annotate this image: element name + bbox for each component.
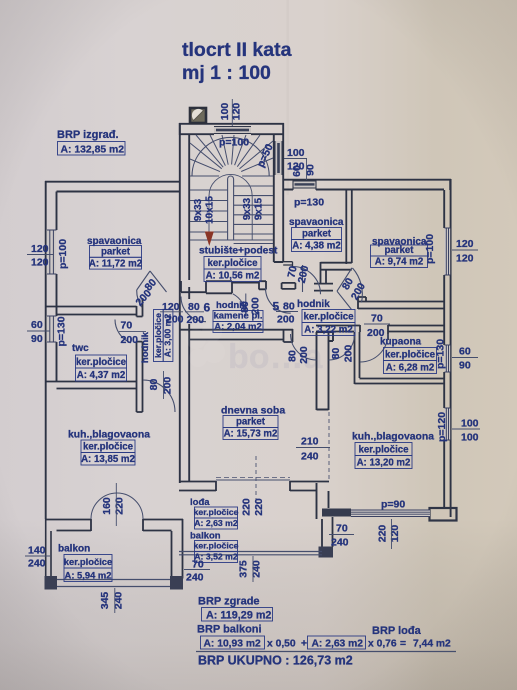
svg-text:balkon: balkon <box>58 544 90 555</box>
wall: balcony bottom (thin rail) <box>45 580 183 587</box>
svg-text:dnevna soba: dnevna soba <box>221 405 285 417</box>
svg-text:ker.pločice: ker.pločice <box>194 541 239 551</box>
door 6 arc (band to spav-left side) <box>181 297 206 322</box>
svg-text:A: 13,85 m2: A: 13,85 m2 <box>81 454 135 465</box>
vignette bottom <box>0 0 1 1</box>
svg-text:parket: parket <box>101 247 131 258</box>
svg-text:200: 200 <box>187 314 205 326</box>
svg-text:spavaonica: spavaonica <box>289 217 344 228</box>
window stair right p=50 <box>275 141 283 175</box>
svg-text:A: 2,63 m2: A: 2,63 m2 <box>312 638 364 649</box>
post: balcony bottom-left <box>45 576 58 590</box>
svg-text:A: 9,74 m2: A: 9,74 m2 <box>375 257 423 268</box>
svg-text:240: 240 <box>251 560 263 578</box>
wall: spavaonica-left / twc divider <box>45 307 137 315</box>
svg-text:90: 90 <box>31 333 43 345</box>
wall: twc bottom / kuh-left top <box>45 382 137 389</box>
post: balcony bottom-right <box>170 576 183 590</box>
svg-text:BRP izgrađ.: BRP izgrađ. <box>57 129 119 141</box>
dashed opening line kuh-right <box>328 412 330 481</box>
svg-text:A: 10,93 m2: A: 10,93 m2 <box>204 638 262 649</box>
stair treads right flight <box>234 186 273 234</box>
wall: kuh-right bottom with corners <box>322 509 351 517</box>
svg-text:A: 4,37 m2: A: 4,37 m2 <box>77 370 125 381</box>
svg-text:p=100: p=100 <box>219 137 249 149</box>
svg-text:60: 60 <box>31 319 43 331</box>
svg-text:ker.pločice: ker.pločice <box>207 258 258 269</box>
svg-text:p=90: p=90 <box>381 499 405 511</box>
svg-text:ker.pločice: ker.pločice <box>83 442 134 453</box>
svg-text:200: 200 <box>121 334 139 346</box>
svg-text:100: 100 <box>461 418 479 430</box>
svg-text:ker.pločice: ker.pločice <box>194 507 239 517</box>
svg-text:ker.pločice: ker.pločice <box>358 445 409 456</box>
svg-text:240: 240 <box>28 558 46 570</box>
svg-text:BRP lođa: BRP lođa <box>372 625 422 637</box>
wall: west outer <box>46 181 57 519</box>
svg-text:120: 120 <box>31 257 49 269</box>
svg-text:80: 80 <box>330 348 342 360</box>
svg-text:twc: twc <box>72 343 89 354</box>
wall: spav-right bottom <box>358 297 444 309</box>
svg-text:375: 375 <box>238 560 250 578</box>
svg-text:A: 119,29 m2: A: 119,29 m2 <box>206 609 271 621</box>
box A: 119,29 m2 <box>202 608 273 622</box>
svg-text:240: 240 <box>331 537 349 549</box>
box A: 132,85 m2 <box>58 142 126 156</box>
svg-text:120: 120 <box>162 301 180 313</box>
svg-text:160: 160 <box>101 497 113 515</box>
svg-text:9x15: 9x15 <box>254 197 265 220</box>
svg-text:220: 220 <box>241 498 253 516</box>
svg-text:70: 70 <box>192 559 204 571</box>
svg-text:tlocrt II kata: tlocrt II kata <box>182 39 292 61</box>
svg-text:p=130: p=130 <box>435 339 447 369</box>
svg-text:240: 240 <box>113 592 125 610</box>
svg-text:kuh.,blagovaona: kuh.,blagovaona <box>68 430 150 441</box>
dashed opening line loda <box>255 456 257 512</box>
stair walking line <box>209 174 252 244</box>
wall: kupaona bottom <box>355 379 445 384</box>
window east p=100 (120/120) <box>445 228 451 275</box>
window stair top p=100 <box>214 127 251 134</box>
svg-text:p=130: p=130 <box>294 197 324 209</box>
svg-text:hodnik: hodnik <box>297 299 330 310</box>
svg-text:bo…a: bo…a <box>228 338 324 376</box>
svg-text:BRP balkoni: BRP balkoni <box>197 624 262 636</box>
stair flight divider <box>228 176 234 240</box>
svg-text:200: 200 <box>250 297 262 315</box>
wall: band bottom right of passage / kupaona top <box>316 325 444 340</box>
stair fan lines <box>190 135 273 176</box>
svg-text:120: 120 <box>456 238 474 250</box>
svg-text:kupaona: kupaona <box>380 337 422 348</box>
svg-text:100: 100 <box>461 432 479 444</box>
svg-text:A: 6,28 m2: A: 6,28 m2 <box>386 363 434 374</box>
svg-text:100: 100 <box>287 147 305 159</box>
svg-text:200: 200 <box>277 314 295 326</box>
svg-text:hodnik: hodnik <box>140 331 151 363</box>
svg-text:70: 70 <box>371 313 383 325</box>
door twc arc <box>115 320 131 343</box>
svg-text:ker.pločice: ker.pločice <box>64 556 112 567</box>
wall: stair block bottom / band north with door openings <box>181 281 266 293</box>
svg-text:A: 11,72 m2: A: 11,72 m2 <box>89 258 142 269</box>
stair direction arrow (red) <box>205 232 214 247</box>
svg-text:p=100: p=100 <box>57 239 69 269</box>
door corridor-kuh arc <box>143 380 175 412</box>
wall: stair block right upper with window <box>274 135 283 190</box>
drawing groups inserted below <box>57 39 292 155</box>
wall: band foot piece east of door5 <box>282 283 296 289</box>
wall: kuh-left bottom / balcony top <box>45 519 183 579</box>
dashed dnevna opening sill <box>216 477 290 479</box>
svg-text:ker.pločice: ker.pločice <box>385 350 436 361</box>
svg-text:6: 6 <box>204 301 211 315</box>
svg-text:kuh.,blagovaona: kuh.,blagovaona <box>352 432 434 443</box>
window top-mid 60/90 <box>293 180 316 190</box>
svg-text:A: 4,38 m2: A: 4,38 m2 <box>292 241 340 252</box>
door passage west arc <box>291 334 317 360</box>
svg-text:p=130: p=130 <box>56 316 68 346</box>
svg-text:+: + <box>301 638 307 649</box>
svg-text:=: = <box>400 638 406 649</box>
door spav-mid arc and dim line <box>293 265 321 294</box>
stair podest line <box>190 240 273 244</box>
wall: spav-mid east <box>346 190 352 264</box>
svg-text:parket: parket <box>384 245 414 256</box>
wall: stair block top (north) <box>179 123 284 135</box>
svg-text:240: 240 <box>186 572 204 584</box>
wall: kupaona west <box>355 332 360 384</box>
svg-text:60: 60 <box>459 346 471 358</box>
wall: dnevna west / corridor east <box>180 287 189 483</box>
door spav-left SE leaf and arc <box>137 271 167 308</box>
svg-text:A: 3,22 m2: A: 3,22 m2 <box>304 325 352 336</box>
door passage east arc <box>329 334 355 360</box>
svg-text:80: 80 <box>188 301 200 313</box>
svg-text:200: 200 <box>166 314 184 326</box>
svg-text:A: 13,20 m2: A: 13,20 m2 <box>357 458 411 469</box>
svg-text:200: 200 <box>367 327 385 339</box>
svg-text:220: 220 <box>253 498 265 516</box>
svg-text:100: 100 <box>219 103 231 121</box>
svg-text:ker.pločice: ker.pločice <box>76 357 127 368</box>
svg-text:220: 220 <box>377 525 389 543</box>
svg-text:parket: parket <box>302 229 332 240</box>
wall: balcony-right side piece <box>322 517 333 547</box>
wall: spav-mid south <box>314 262 352 291</box>
post: balcony-right bottom <box>319 547 334 558</box>
svg-text:A: 132,85 m2: A: 132,85 m2 <box>61 144 125 155</box>
wall: right section top (north) <box>284 179 451 190</box>
svg-text:10x15: 10x15 <box>205 196 216 224</box>
stair treads left flight <box>190 190 228 232</box>
svg-text:A: 10,56 m2: A: 10,56 m2 <box>206 271 260 282</box>
svg-text:A: 2,63 m2: A: 2,63 m2 <box>194 518 238 528</box>
chimney shaft (hatched square) <box>190 108 206 123</box>
wall: bar A (passage / kuh-right divider) <box>317 332 334 410</box>
svg-text:A: 5,94 m2: A: 5,94 m2 <box>65 570 112 581</box>
svg-text:p=120: p=120 <box>436 412 448 442</box>
svg-text:240: 240 <box>301 451 319 463</box>
svg-text:140: 140 <box>28 545 46 557</box>
svg-text:90: 90 <box>459 360 471 372</box>
svg-text:9x33: 9x33 <box>242 197 253 220</box>
svg-text:x 0,50: x 0,50 <box>267 638 296 649</box>
svg-text:A: 15,73 m2: A: 15,73 m2 <box>224 429 278 440</box>
wall: left section top (north) <box>45 182 180 192</box>
door 5 arc (band to spav-mid side) <box>266 288 291 313</box>
door stair leaf and arc <box>233 294 246 317</box>
svg-text:stubište+podest: stubište+podest <box>199 246 278 257</box>
svg-text:200: 200 <box>343 345 355 363</box>
svg-text:70: 70 <box>336 523 348 535</box>
wall: east outer <box>444 179 450 517</box>
stair winder arc <box>192 137 269 176</box>
svg-text:345: 345 <box>99 592 111 610</box>
svg-text:80: 80 <box>148 379 160 391</box>
svg-text:120: 120 <box>456 253 474 265</box>
svg-text:120: 120 <box>389 525 401 543</box>
svg-text:80: 80 <box>283 301 295 313</box>
svg-text:220: 220 <box>114 497 126 515</box>
sill: dnevna loda opening <box>216 479 290 481</box>
svg-text:mj 1 : 100: mj 1 : 100 <box>182 62 271 84</box>
underline <box>196 651 456 653</box>
window east p=120 (100/100) <box>445 408 451 440</box>
svg-text:70: 70 <box>121 320 133 332</box>
svg-text:ker.pločice: ker.pločice <box>303 312 354 323</box>
svg-text:parket: parket <box>236 417 266 428</box>
paper crease <box>287 0 290 195</box>
svg-text:7,44 m2: 7,44 m2 <box>413 638 451 649</box>
wall: balcony west side <box>46 519 51 578</box>
svg-text:60: 60 <box>291 165 303 177</box>
window east p=130 (60/90) <box>445 345 451 372</box>
wall: dnevna bottom right segment <box>290 481 329 491</box>
window west p=100 (120/120) <box>47 230 57 274</box>
wall: dnevna top / hodnik band bottom <box>179 329 293 342</box>
box A: 10,93 m2 <box>201 636 265 649</box>
wall: stair block left (west) <box>180 123 189 287</box>
window kuh-right bottom p=90 <box>351 510 430 517</box>
window west p=130 (60/90) <box>47 316 57 342</box>
svg-text:9x33: 9x33 <box>193 198 204 221</box>
wall: dnevna bottom left segment <box>179 481 216 491</box>
svg-text:p=100: p=100 <box>424 234 436 264</box>
door spav-right leaf and arc <box>337 268 362 310</box>
watermark blob <box>186 329 206 349</box>
door kupaona arc <box>360 334 388 362</box>
wall: spav-mid west lower (stair wall extension) <box>274 190 283 262</box>
svg-text:x 0,76: x 0,76 <box>368 638 397 649</box>
svg-text:120: 120 <box>31 243 49 255</box>
svg-text:BRP zgrade: BRP zgrade <box>198 596 260 608</box>
door kuh-left double arcs <box>91 493 143 519</box>
wall: kuh-right west lower <box>317 483 329 519</box>
box A: 2,63 m2 <box>308 636 366 649</box>
wall: corridor west (twc east) with door opening <box>137 298 143 412</box>
wall: loda bottom rail <box>179 552 322 555</box>
wall: spav-mid door jamb <box>283 262 292 267</box>
svg-text:ker.pločice: ker.pločice <box>153 313 163 358</box>
svg-text:210: 210 <box>301 436 319 448</box>
svg-text:BRP UKUPNO : 126,73 m2: BRP UKUPNO : 126,73 m2 <box>198 654 353 668</box>
